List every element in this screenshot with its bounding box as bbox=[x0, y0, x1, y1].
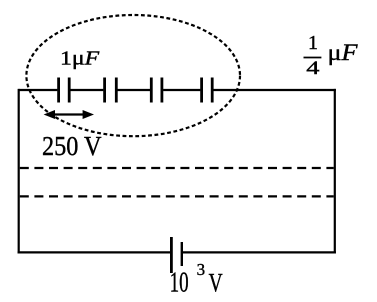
svg-text:4: 4 bbox=[306, 58, 320, 79]
wire between C1 and C2 bbox=[71, 89, 104, 91]
svg-text:10: 10 bbox=[170, 267, 189, 299]
dashed line (lower plate region) bbox=[20, 195, 334, 197]
wire bottom-right segment bbox=[183, 251, 336, 253]
dashed line (upper plate region) bbox=[20, 167, 334, 169]
svg-text:μF: μF bbox=[328, 40, 359, 66]
wire bottom-left segment bbox=[18, 251, 171, 253]
wire top-right segment bbox=[213, 89, 336, 91]
wire top-left segment bbox=[18, 89, 57, 91]
wire left edge bbox=[18, 89, 20, 254]
label 10^3 V (battery emf) bbox=[170, 260, 223, 298]
capacitor C4 bbox=[202, 78, 213, 103]
double-headed arrow (span under C1) bbox=[44, 110, 94, 119]
svg-text:1μF: 1μF bbox=[60, 49, 101, 70]
wire right edge bbox=[334, 89, 336, 254]
label 250 V bbox=[42, 131, 102, 161]
label 1 microfarad (value of each series capacitor) bbox=[60, 49, 101, 70]
svg-text:V: V bbox=[209, 269, 223, 298]
capacitor C2 bbox=[105, 78, 117, 103]
battery (cell) bbox=[171, 237, 181, 273]
svg-text:250 V: 250 V bbox=[42, 131, 102, 161]
capacitor C1 bbox=[59, 78, 70, 103]
svg-text:1: 1 bbox=[308, 32, 318, 54]
wire between C3 and C4 bbox=[163, 89, 200, 91]
capacitor C3 bbox=[151, 78, 162, 103]
wire between C2 and C3 bbox=[118, 89, 151, 91]
label 1/4 microfarad (equivalent capacitance) bbox=[304, 32, 359, 79]
dotted ellipse highlight around series capacitors bbox=[26, 15, 240, 136]
svg-text:3: 3 bbox=[197, 260, 206, 279]
